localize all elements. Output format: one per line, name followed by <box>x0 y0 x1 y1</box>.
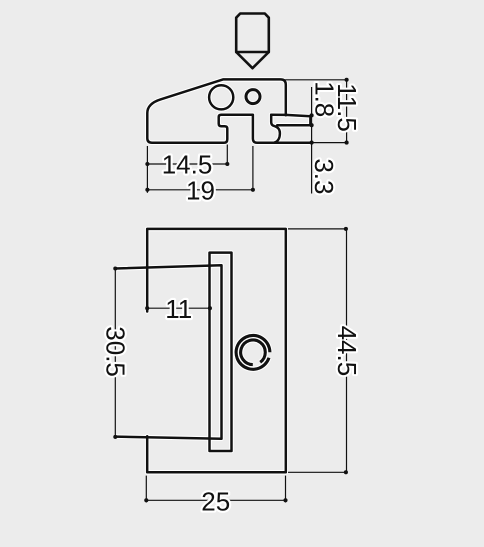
svg-text:11: 11 <box>165 294 192 324</box>
svg-text:3.3: 3.3 <box>309 158 339 194</box>
svg-text:19: 19 <box>186 175 215 205</box>
svg-text:25: 25 <box>201 487 230 517</box>
svg-text:1.8: 1.8 <box>309 81 339 117</box>
svg-text:44.5: 44.5 <box>332 326 362 377</box>
svg-text:30.5: 30.5 <box>101 326 131 377</box>
